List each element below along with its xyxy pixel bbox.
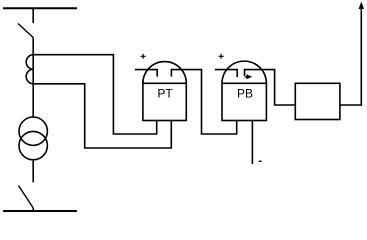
- relay PB timed-contact arrow tail: [245, 76, 247, 78]
- wire CT secondary top tap to relay PT bottom left terminal: [33, 55, 157, 134]
- plus label at relay PB contact: [219, 54, 224, 59]
- voltage transformer TV secondary circle: [19, 131, 47, 159]
- top busbar: [3, 7, 77, 9]
- current transformer TA winding arc 2: [26, 69, 33, 84]
- wire from top busbar to switch Q1: [32, 8, 34, 23]
- relay PB timed-contact arrowhead: [246, 74, 252, 79]
- output block rectangle: [295, 83, 340, 119]
- relay PB left contact terminal with + supply stub: [215, 70, 237, 77]
- relay PB negative supply leg wire: [251, 120, 253, 164]
- bottom busbar: [3, 210, 77, 212]
- plus label at relay PT contact: [141, 54, 146, 59]
- relay PB body rectangle: [222, 83, 266, 120]
- relay PB dome: [222, 61, 266, 83]
- disconnect switch Q2 blade: [19, 186, 34, 209]
- disconnect switch Q1 blade: [18, 24, 33, 38]
- relay PB right timed contact terminal and wire to output block: [245, 70, 296, 105]
- minus label at relay PB supply leg: [259, 160, 262, 162]
- trip output arrowhead: [359, 2, 364, 10]
- wire from output block to trip arrow: [340, 9, 361, 106]
- wire from switch Q1 through CT to voltage transformer: [32, 38, 34, 118]
- wire CT secondary bottom tap to relay PT bottom right terminal: [33, 84, 171, 148]
- relay PT body rectangle: [143, 83, 186, 120]
- current transformer TA winding arc 1: [26, 55, 33, 70]
- relay PT dome: [143, 62, 186, 84]
- svg-text:PB: PB: [237, 87, 253, 101]
- relay PT left contact terminal with + supply stub: [135, 70, 157, 77]
- voltage transformer TV primary circle: [19, 117, 47, 145]
- relay PT right contact terminal and wire to relay PB bottom terminal: [171, 70, 236, 134]
- svg-text:PT: PT: [157, 87, 173, 101]
- wire from switch Q2 to bottom busbar: [32, 208, 34, 212]
- wire from transformer TV to switch Q2: [32, 160, 34, 183]
